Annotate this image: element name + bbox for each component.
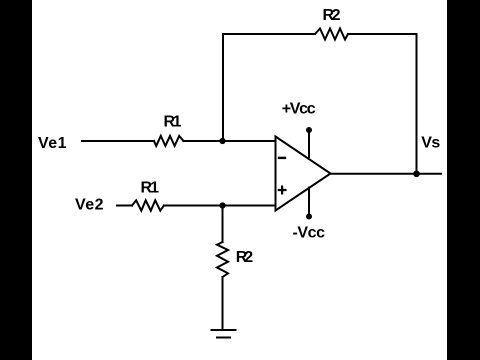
svg-text:R2: R2 (323, 7, 341, 24)
svg-text:Ve2: Ve2 (75, 197, 104, 214)
svg-text:R1: R1 (164, 114, 182, 131)
svg-text:R2: R2 (236, 249, 254, 266)
svg-text:R1: R1 (141, 180, 160, 197)
svg-text:+Vcc: +Vcc (282, 100, 316, 117)
svg-text:Vs: Vs (421, 135, 440, 152)
svg-text:-Vcc: -Vcc (293, 225, 326, 242)
svg-text:Ve1: Ve1 (38, 135, 67, 152)
